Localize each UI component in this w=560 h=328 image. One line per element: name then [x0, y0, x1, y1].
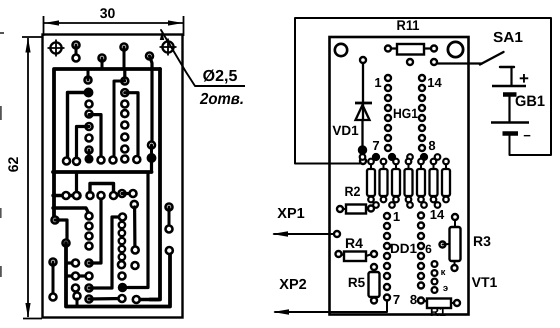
resistor R2 [337, 205, 374, 214]
pin label 8 [410, 292, 417, 307]
wire XP2 [273, 300, 387, 315]
resistor vertical [405, 159, 413, 203]
svg-text:к: к [441, 267, 446, 278]
IC pad [119, 246, 125, 252]
svg-text:Ø2,5: Ø2,5 [203, 68, 238, 85]
trace with pads [67, 273, 93, 280]
resistor R3 [450, 214, 461, 271]
svg-text:30: 30 [100, 5, 116, 21]
svg-text:14: 14 [427, 75, 442, 90]
DD1 pin pad left [384, 253, 390, 259]
trace runner up [86, 199, 102, 267]
svg-text:R3: R3 [473, 233, 491, 249]
left PCB board outline [43, 35, 183, 318]
IC pad [119, 238, 125, 244]
label R5 [348, 275, 366, 290]
wire XP1 [272, 231, 340, 237]
label R3 [473, 233, 491, 249]
svg-text:R1: R1 [430, 305, 446, 319]
resistor vertical [392, 159, 400, 203]
svg-text:8: 8 [410, 292, 417, 307]
via pad [421, 154, 428, 161]
dimension 62 line [25, 38, 30, 319]
resistor R1 [425, 299, 461, 309]
pad stub to ring [121, 69, 128, 85]
pad pair top [73, 42, 80, 62]
label XP2 [279, 277, 306, 293]
switch SA1 [437, 52, 514, 85]
HG1 pin pad right [419, 135, 425, 141]
pads column [118, 261, 139, 279]
trace runner up [86, 214, 127, 292]
trace chain [131, 201, 139, 254]
svg-text:R5: R5 [348, 275, 366, 290]
label DD1 [390, 241, 417, 256]
HG1 pin pad left [385, 115, 391, 121]
DD1 pin7 pad [384, 295, 390, 301]
resistor vertical [430, 159, 438, 203]
trace stub [53, 208, 89, 213]
pad chain bottom [85, 147, 93, 163]
HG1 pin pad right [419, 125, 425, 131]
via pad [407, 154, 413, 160]
label minus [523, 128, 531, 143]
IC pad [121, 146, 128, 153]
trace dumbbell left [50, 259, 57, 301]
wire battery loop [295, 18, 551, 164]
trace bottom [86, 295, 126, 303]
svg-text:GB1: GB1 [515, 93, 545, 110]
DD1 pin pad left [384, 223, 390, 229]
IC pad [121, 134, 128, 141]
svg-text:8: 8 [428, 138, 435, 153]
IC pad [86, 101, 93, 108]
label VT1 [472, 274, 498, 290]
HG1 pin pad right [419, 75, 425, 81]
IC pad [121, 110, 128, 117]
label XP1 [277, 206, 304, 222]
svg-text:VT1: VT1 [472, 274, 498, 290]
HG1 pin pad right [419, 105, 425, 111]
trace ring right [150, 69, 160, 300]
via pad [435, 202, 441, 208]
trace runner [125, 93, 141, 163]
via pad [389, 154, 396, 161]
svg-text:э: э [443, 283, 448, 294]
label R11 [397, 17, 420, 33]
DD1 pin pad right [418, 273, 424, 279]
svg-text:HG1: HG1 [393, 106, 418, 121]
IC pad [119, 222, 125, 228]
svg-text:DD1: DD1 [390, 241, 417, 256]
svg-text:+: + [519, 69, 529, 88]
pad stub [74, 293, 81, 306]
trace pair [119, 190, 137, 197]
dimension label 30 [100, 5, 116, 21]
HG1 pin pad left [385, 135, 391, 141]
battery GB1 cell2 short plate [503, 131, 519, 136]
trace dumbbell [166, 204, 173, 233]
resistor R11 [385, 44, 437, 55]
trace stub from bar [73, 172, 80, 199]
trace ring top and left [54, 69, 160, 217]
svg-text:14: 14 [430, 207, 445, 222]
via pad [360, 154, 366, 160]
svg-text:2отв.: 2отв. [199, 91, 244, 108]
DD1 pin pad left [384, 213, 390, 219]
trace runner [73, 123, 93, 165]
right board outline [330, 37, 469, 315]
trace stub [52, 217, 70, 247]
pad chain right [146, 53, 156, 173]
mounting hole top-left [48, 40, 65, 57]
resistor R4 [336, 251, 378, 261]
pin label 1 [374, 75, 381, 90]
trace to ring edge [133, 296, 158, 303]
label SA1 [493, 30, 523, 46]
DD1 pin pad right [418, 233, 424, 239]
trace runner [89, 115, 105, 164]
speck [0, 32, 4, 34]
HG1 pin pad right [419, 95, 425, 101]
via pad [421, 202, 427, 208]
trace inverted U [87, 184, 118, 200]
battery lead [508, 96, 510, 121]
hole count label [199, 91, 244, 108]
HG1 pin pad right [419, 145, 425, 151]
svg-text:XP1: XP1 [277, 206, 304, 222]
speck [0, 266, 2, 277]
via pad [435, 154, 441, 160]
HG1 pin pad left [385, 95, 391, 101]
hole diameter label [203, 68, 238, 85]
dimension 30 extension lines [44, 16, 184, 36]
IC pad [121, 101, 128, 108]
HG1 pin pad left [385, 145, 391, 151]
svg-text:62: 62 [5, 157, 21, 173]
svg-text:VD1: VD1 [332, 123, 359, 138]
IC pad [86, 213, 93, 220]
pad stub to ring [67, 260, 79, 267]
pin label 14 [427, 75, 442, 90]
IC pad [86, 243, 93, 250]
pin label 7 [393, 292, 400, 307]
trace runner [110, 81, 125, 164]
label R1 [430, 305, 446, 319]
DD1 pin pad left [384, 243, 390, 249]
transistor base pad [440, 242, 450, 248]
DD1 pin pad right [418, 213, 424, 219]
DD1 pin pad right [418, 243, 424, 249]
mounting hole top-right [160, 39, 177, 56]
svg-text:R11: R11 [397, 17, 420, 33]
DD1 pin pad right [418, 253, 424, 259]
leader line to hole [160, 30, 245, 86]
svg-text:SA1: SA1 [493, 30, 523, 46]
IC pad [86, 111, 93, 118]
IC pad [86, 135, 93, 142]
resistor R5 [369, 264, 380, 304]
svg-text:1: 1 [374, 75, 381, 90]
svg-text:R4: R4 [345, 235, 363, 251]
resistor vertical [367, 159, 375, 203]
svg-text:7: 7 [372, 138, 379, 153]
pad stub to ring [85, 69, 92, 84]
resistor vertical [442, 159, 450, 203]
pin label e [443, 283, 448, 294]
pad below R11 [407, 59, 413, 65]
pin label 6 [425, 242, 432, 256]
trace upper-left [63, 88, 93, 164]
via pad [373, 154, 380, 161]
mounting hole left [335, 44, 347, 56]
dimension label 62 [5, 157, 21, 173]
IC pad [121, 89, 128, 96]
svg-text:1: 1 [393, 209, 400, 224]
mounting hole right [448, 42, 463, 57]
resistor vertical [380, 159, 388, 203]
DD1 pin pad left [384, 263, 390, 269]
pin label 7 [372, 138, 379, 153]
pin label 14 [430, 207, 445, 222]
dimension 62 extension lines [22, 37, 42, 319]
svg-text:6: 6 [425, 242, 432, 256]
speck [0, 106, 2, 120]
HG1 pin pad right [419, 85, 425, 91]
dimension 30 line [44, 20, 183, 25]
label R4 [345, 235, 363, 251]
DD1 pin pad left [384, 273, 390, 279]
DD1 pin pad right [418, 223, 424, 229]
pin label k [441, 267, 446, 278]
speck [0, 208, 2, 218]
DD1 pin pad right [418, 283, 424, 289]
pad with stub [99, 55, 106, 70]
label plus [519, 69, 529, 88]
trace corner L1 [119, 173, 149, 292]
battery GB1 cell1 short plate [503, 92, 517, 97]
HG1 pin pad right [419, 115, 425, 121]
IC pad [86, 233, 93, 240]
HG1 pin pad left [385, 75, 391, 81]
label VD1 [332, 123, 359, 138]
svg-text:7: 7 [393, 292, 400, 307]
label GB1 [515, 93, 545, 110]
HG1 pin pad left [385, 125, 391, 131]
via pad [373, 202, 379, 208]
HG1 pin pad left [385, 105, 391, 111]
DD1 pin pad left [384, 284, 390, 290]
battery GB1 cell2 long plate [491, 121, 529, 123]
HG1 pin pad left [385, 85, 391, 91]
pin label 8 [428, 138, 435, 153]
trace middle bar [53, 170, 152, 174]
battery GB1 cell1 long plate [492, 85, 526, 87]
IC pad [121, 122, 128, 129]
DD1 pin pad right [418, 263, 424, 269]
resistor vertical [417, 159, 425, 203]
pad switch node [431, 59, 437, 65]
transistor VT1 pads [432, 261, 438, 293]
pad [98, 192, 105, 199]
DD1 pin8 pad [418, 298, 424, 304]
label HG1 [393, 106, 418, 121]
IC pad [119, 254, 125, 260]
trace bottom U [66, 243, 173, 307]
diode VD1 [355, 57, 372, 164]
trace stub pads [53, 192, 81, 199]
DD1 pin pad left [384, 233, 390, 239]
via pad [407, 202, 413, 208]
pin label 1 [393, 209, 400, 224]
IC pad [86, 223, 93, 230]
pad [121, 156, 128, 163]
via pad [389, 202, 395, 208]
svg-text:XP2: XP2 [279, 277, 306, 293]
label R2 [345, 184, 361, 199]
pad with stub [121, 44, 128, 70]
pad [72, 285, 79, 292]
IC pad [119, 230, 125, 236]
svg-text:−: − [523, 128, 531, 143]
svg-text:R2: R2 [345, 184, 361, 199]
